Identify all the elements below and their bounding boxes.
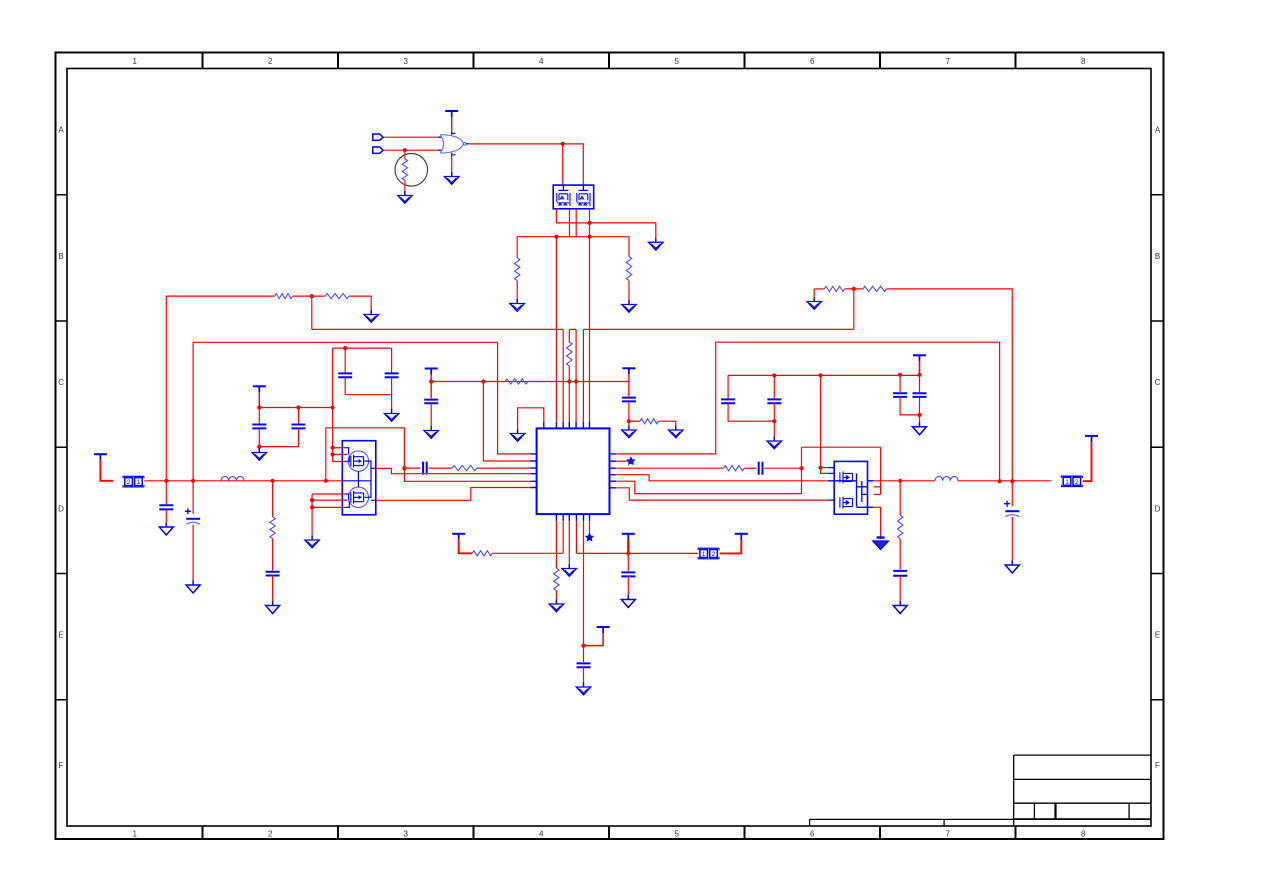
wire C17 to ground [919,415,921,426]
ground under C19 [893,601,907,614]
wire Q2 upper out to U2 left pin 4 [376,468,531,473]
wire to C16 [899,375,901,392]
junction y381 col4 [574,379,578,383]
capacitor C14 [721,399,735,403]
svg-text:3: 3 [404,830,409,839]
wire U2 bottom pin 3 to ground [568,521,570,568]
wire to R3 [628,237,630,257]
inductor L2 [935,476,958,480]
wire RT1 to ground [404,180,406,194]
junction gate feed top [818,373,822,377]
wire net D down to U2 top pin 6 [589,237,591,422]
junction x801 y468 [799,466,803,470]
connector J1 [123,476,144,487]
junction rail480/R16 [898,479,902,483]
frame column labels [133,57,1087,839]
ground under R2 [510,299,524,311]
capacitor C19 [893,571,907,576]
wire U2 top pin gnd loop [518,408,544,433]
power symbol above C1 [253,386,266,392]
ground right of R8 [669,426,683,438]
resistor R15 [863,286,887,291]
svg-text:E: E [1155,631,1160,640]
wire vertical x801 [801,447,803,493]
junction C15 top [772,373,776,377]
svg-text:C: C [58,378,64,387]
wire R11 to ground [555,591,557,604]
capacitor C15 [767,399,781,403]
wire rail y375 [728,374,919,376]
wire C11 to ground [583,667,585,686]
wire rail to R16 [899,481,901,515]
power symbol right of J3 [1085,436,1098,442]
wire to C8 [192,481,194,514]
power symbol at R7 net [425,369,438,375]
wire junction down to rail329 [853,289,855,330]
capacitor C3 [338,373,352,377]
junction x332 y407 [331,405,335,409]
ground under C4 [384,409,398,421]
svg-text:8: 8 [1081,830,1086,839]
ground under C7 [159,523,173,536]
wire gate stub 3 Q2 [333,461,346,463]
junction C1 top [257,405,261,409]
ground under R14 left [807,297,821,309]
wire bridge to R4 [568,329,570,341]
capacitor C7 [159,505,173,509]
wire to C3 [344,348,346,372]
junction U1 output [561,142,565,146]
svg-text:2: 2 [1075,479,1079,486]
wire port P2 to U1 input B [384,149,438,151]
svg-text:6: 6 [810,830,815,839]
junction under C6 [627,419,631,423]
ground under C15 [767,437,781,449]
ground under gate U1 [445,172,459,184]
ground under C8 [186,581,200,594]
power symbol at y627 [597,627,610,633]
junction gate stub 2 [331,452,335,456]
wire to R9 [272,481,274,517]
svg-text:F: F [59,761,64,770]
wire power to U1 top pin [451,117,453,131]
wire to C18 [1011,481,1013,506]
ground under C1 [252,448,266,460]
svg-text:2: 2 [127,479,131,486]
junction x820 gates [818,466,822,470]
wire C16 bottom link [900,397,919,415]
wire Q1 pin D down [589,209,591,237]
ground under Q3 (bold) [873,541,889,550]
wire C19 to ground [899,576,901,605]
polarized capacitor C18 [1005,510,1019,512]
wire gate stub 4 Q2 [312,493,345,495]
row tick marks [56,195,1164,700]
wire to C17 [919,375,921,392]
wire to C15 [773,375,775,398]
wire left vertical x166 [165,296,167,481]
junction rail/C7 [164,479,168,483]
wire U2 right pin2 nc [616,460,627,462]
svg-text:7: 7 [946,57,951,66]
svg-text:5: 5 [675,830,680,839]
column tick marks [203,53,1016,840]
wire to C11 [583,646,585,662]
wire C1 node to x332 [259,407,332,409]
wire Q2 lower out to U2 left pin 6 [376,488,531,501]
resistor R4 [567,342,572,366]
wire C18 to ground [1011,517,1013,564]
ground under C11 [576,683,590,695]
svg-text:4: 4 [539,830,544,839]
wire U1 bottom pin to ground [451,157,453,175]
wire net y381 [431,381,629,383]
wire C3 bottom link [345,377,391,394]
wire R13 to C13 [744,467,757,469]
junction y381 col3 [567,379,571,383]
ground under R11 [549,600,563,612]
capacitor C12 [621,572,635,576]
polarized capacitor C8 [186,518,200,520]
capacitor C6 [622,398,636,402]
frame row labels [58,126,1161,770]
wire R14 to ground [813,289,815,301]
connector J3 [1061,476,1082,487]
capacitor C10 [423,462,427,475]
junction R5/R6 [310,294,314,298]
wire C1 to ground [258,447,260,452]
svg-text:7: 7 [946,830,951,839]
ground under C18 [1005,561,1019,574]
power symbol left of rail553 [452,534,465,540]
thermistor circle RT1 [395,154,428,187]
wire to C4 [391,348,393,372]
ground right of Q1 [649,238,663,250]
ground under C9 [266,601,280,614]
wire power to C1 node [258,392,260,408]
ground left of U2 [510,429,524,441]
svg-text:F: F [1155,761,1160,770]
wire rail480 right b [958,480,1052,482]
power symbol right of J2 [735,534,748,540]
resistor R13 [724,466,745,471]
wire J2 to power [720,539,742,553]
junction rail237 right [587,235,591,239]
wire Q3 right pin a [874,486,881,488]
svg-text:2: 2 [712,551,716,558]
wire C12 to ground [627,576,629,598]
junction input B / RT1 [403,148,407,152]
wire R4 to U2 top pin 3 [568,366,570,422]
junction C17 bottom [917,413,921,417]
junction C1 bottom [257,445,261,449]
title block [810,755,1151,826]
svg-text:1: 1 [133,57,138,66]
svg-text:4: 4 [539,57,544,66]
wire J3 to power [1083,441,1092,481]
wire gate stub 6 Q2 [312,506,345,508]
wire x312 to ground [311,494,313,539]
wire Q1 pin B down [569,209,571,237]
wire long rail y329 right [583,328,853,330]
svg-text:1: 1 [1065,479,1069,486]
junction rail553 / C12 [626,551,630,555]
wire gate stub 5 Q2 [312,499,345,501]
wire R9 to C9 [272,539,274,571]
wire R12 to U2 pin2 net [492,552,563,554]
capacitor C17 [913,393,927,397]
wire port P1 to U1 input A [384,136,438,138]
resistor R16 [898,515,903,539]
svg-text:A: A [58,126,64,135]
wire y381 down to U2 left pin 2 [483,382,530,462]
wire gate stub 1 Q2 [333,447,346,449]
junction gate stub 5 [310,498,314,502]
svg-text:B: B [1155,252,1160,261]
resistor R12 [472,551,492,556]
wire left of R5 [166,295,274,297]
U1 input pin stubs [438,137,441,150]
input port P1 to gate U1 [373,134,383,140]
wire C15 bottom [773,403,775,421]
wire R5 to R6 [293,295,326,297]
svg-text:1: 1 [137,479,141,486]
wire bridge down to U2 top pin 4 [575,329,577,421]
wire C6 to R8 [629,420,640,422]
power symbol far left [94,454,107,460]
capacitor C11 [577,663,591,667]
wire feedback to U2 left pin 5 [326,428,531,482]
svg-text:2: 2 [268,57,273,66]
wire to R2 [516,237,518,258]
ground under C5 [424,426,438,438]
wire R6 to ground [349,296,371,313]
wire C13 to x801 [764,467,801,469]
resistor RT1 [402,159,407,181]
wire R14 to R15 [845,288,863,290]
wire cap rail y348 [333,347,392,349]
wire to R14 [814,288,824,290]
wire C10 to R10 [429,467,452,469]
resistor R9 [270,517,275,539]
wire R10 to U2 left pin 3 [477,467,531,469]
svg-text:1: 1 [702,551,706,558]
power symbol above C16 [913,355,926,361]
ground under C17 [913,422,927,435]
wire to C7 [165,481,167,504]
junction x404 y468 [402,466,406,470]
junction rail/C8 [191,479,195,483]
capacitor C16 [893,393,907,397]
capacitor C4 [385,373,399,377]
wire power to rail553 [627,539,629,553]
svg-text:D: D [1155,504,1161,513]
wire power to C5 [430,374,432,398]
junction rail480 x1012 [1010,479,1014,483]
svg-text:3: 3 [404,57,409,66]
wire C9 to ground [272,576,274,605]
wire R2 to ground [516,281,518,303]
resistor R8 [640,419,658,424]
wire C8 to ground [192,525,194,585]
svg-text:B: B [58,252,63,261]
wire C1 C2 bottom link [259,428,298,446]
U2 pin stubs [531,422,617,521]
wire to C2 [298,408,300,424]
capacitor C1 [252,425,266,429]
svg-text:D: D [58,504,64,513]
wire U2 right pin6 to Q3 gate [616,488,828,500]
wire C15 to ground [773,421,775,440]
wire rail329 down to U2 top pin 2 [562,329,564,421]
or-gate U1 [440,131,466,157]
resistor R2 [515,258,520,281]
junction rail237 left [554,235,558,239]
capacitor C5 [424,400,438,404]
dual mosfet block Q3 [828,461,874,514]
ground under C12 [621,595,635,608]
wire to C1 [258,408,260,424]
capacitor C2 [292,425,306,429]
wire R5 junction down to rail329 [311,296,313,329]
wire U2 bottom pin 1 to R11 [555,521,557,568]
junction C17 power [917,373,921,377]
junction rail/R9 [271,479,275,483]
wire C4 to ground [391,377,393,412]
svg-text:E: E [58,631,63,640]
wire rail y329 bridge [569,328,576,330]
wire to C14 [727,375,729,398]
wire power to J1 [100,460,113,481]
wire y447 across [802,446,881,448]
wire to Q3 gate 1 [821,467,829,469]
junction gate stub 6 [310,505,314,509]
sheet border frame [56,53,1164,840]
junction y381 at power stem [429,379,433,383]
resistor R7 [505,379,528,384]
wire U2 right pin5 to x801 [616,481,801,493]
svg-text:2: 2 [268,830,273,839]
wire vertical x193 [192,342,194,481]
resistor R5 [275,294,293,299]
ground under C6 chain [622,426,636,438]
svg-text:1: 1 [133,830,138,839]
resistor R14 [824,286,844,291]
dual mosfet block Q2 [342,441,376,515]
power symbol VCC above gate U1 [445,111,458,117]
inductor L1 [221,476,244,480]
junction C15 bottom [772,419,776,423]
wire C14 bottom link [728,403,774,421]
wire node rail y237 [517,236,629,238]
wire gate feed vertical x820 [820,375,822,467]
connector J2 [698,548,719,559]
resistor R6 [325,294,349,299]
ground under R3 [622,300,636,312]
svg-text:8: 8 [1081,57,1086,66]
wire y645 to power [584,633,604,646]
wire to C10 [404,467,420,469]
wire branch to Q1 pack pin 2 [562,144,564,185]
resistor R10 [452,466,477,471]
wire U2 bottom pin 2 to rail553 [562,521,564,553]
wire rail480 right a [874,480,935,482]
U1 output pin stub [466,143,469,145]
wire U2 bottom pin 5 long [583,521,585,646]
no-connect marker right [627,457,635,464]
wire net A down to U2 top pin 1 [555,237,557,422]
wire R8 to ground [658,421,676,429]
wire U1 output to Q1 pack [469,144,583,185]
svg-text:6: 6 [810,57,815,66]
junction C16 top [898,373,902,377]
wire C7 to ground [165,509,167,526]
junction rail/feedback [324,479,328,483]
wire U2 right pin3 to R13 [616,467,723,469]
wire Q1 pin C down [575,209,577,237]
wire rail y342 left [193,341,498,343]
svg-text:5: 5 [675,57,680,66]
power symbol right of R7 net [622,368,635,374]
capacitor C13 [759,462,763,475]
wire U2 right pin1 loop to rail [616,342,999,481]
wire R3 to ground [628,281,630,304]
wire C6 down [628,401,630,421]
junction C3 top [343,346,347,350]
wire power to C6 [628,374,630,396]
wire C17 bottom [919,397,921,415]
wire rail329 down to U2 top pin 5 [582,329,584,421]
wire rail342 down to U2 left pin 1 [498,342,531,454]
capacitor C9 [266,572,280,576]
wire U2 bottom pin 4 to rail553 right [575,521,577,554]
power symbol above C12 [622,534,635,540]
junction R14/R15 [852,287,856,291]
resistor R11 [554,568,559,590]
svg-text:C: C [1155,378,1161,387]
svg-text:A: A [1155,126,1161,135]
ground right of R6 [364,310,378,322]
wire to Q3 gate 2 [821,468,829,474]
wire Q1 source A to ground net [556,209,655,239]
junction y381 to U2 pin L2 [481,379,485,383]
wire rail553 to C12 [627,553,629,571]
junction gate stub 1 [331,446,335,450]
junction rail480 x999 [998,479,1002,483]
input port P2 to gate U1 [373,147,383,153]
wire power to rail375 [919,361,921,375]
wire Q3 right pin b [874,493,881,495]
wire vertical x332 gate feed [332,348,334,461]
dual p-mosfet pack Q1 [553,185,594,209]
wire long rail y329 left [312,328,563,330]
wire power to R12 [459,539,473,553]
junction at Q1 pin D [587,221,591,225]
wire U2 bottom pin 6 nc [589,521,591,534]
junction C2 top [296,405,300,409]
wire Q3 pin to ground [874,507,881,539]
no-connect marker bottom [586,534,594,541]
wire gate stub 2 Q2 [333,453,346,455]
wire U2 right pin4 to rail480 [616,475,828,481]
wire rail553 right [576,552,698,554]
resistor R3 [626,256,631,280]
wire to RT1 [404,150,406,159]
ground under Q2 gates [305,536,319,548]
wire main rail left [144,480,342,482]
ground under U2 pin3 [562,564,576,576]
ground under RT1 [398,191,412,203]
